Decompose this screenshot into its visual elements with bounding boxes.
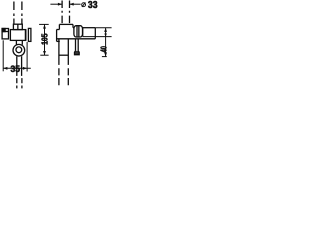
- arrow dim40 down: [104, 52, 107, 56]
- wall flange: [2, 29, 8, 39]
- ext top right: [95, 27, 111, 29]
- svg-text:40: 40: [99, 46, 108, 53]
- svg-text:105: 105: [40, 33, 50, 45]
- pipe dash left: [58, 68, 60, 85]
- body rect side view: [10, 30, 25, 41]
- pipe face hline: [59, 54, 68, 56]
- pipe wall left: [58, 39, 60, 65]
- stud wall left: [75, 39, 77, 51]
- phi symbol: [82, 3, 86, 7]
- dim40 vline: [105, 28, 107, 57]
- arrow dim33 right-point: [58, 3, 62, 6]
- arrow dim40 up: [104, 28, 107, 32]
- body2 right edge: [94, 28, 96, 39]
- centerline left-A: [13, 2, 15, 25]
- dim105 top tick: [39, 23, 49, 25]
- top edge seg2: [83, 27, 96, 29]
- dim105 bottom tick: [40, 54, 48, 56]
- dim35 ext right: [26, 42, 28, 72]
- body right thick edge: [25, 30, 27, 41]
- svg-text:33: 33: [88, 0, 98, 11]
- arrow dim33 left-point: [70, 3, 74, 6]
- tube wall left: [16, 56, 18, 76]
- end disc: [28, 28, 31, 41]
- step down right: [72, 24, 74, 27]
- pipe dash right: [67, 68, 69, 85]
- svg-text:35: 35: [11, 64, 20, 74]
- flange dark cell: [2, 29, 5, 32]
- tube hidden dash right: [21, 78, 23, 88]
- flange divider hline: [2, 31, 8, 33]
- tube hidden dash left: [16, 78, 18, 88]
- flange2 bottom: [57, 40, 60, 42]
- plateau left edge: [58, 24, 60, 29]
- centerline left-B: [21, 2, 23, 25]
- tube wall right: [21, 56, 23, 76]
- step hline: [57, 29, 60, 31]
- dim40 bottom tick: [102, 56, 107, 58]
- arrow dim40 mid-down: [104, 34, 107, 37]
- body2 bottom edge: [56, 38, 95, 40]
- dim33 line left: [50, 3, 62, 5]
- barrel right vline: [82, 28, 84, 37]
- internal hline + ext: [83, 36, 112, 38]
- pipe wall right: [67, 39, 69, 65]
- stem mid line: [17, 24, 19, 29]
- dim33 line right: [70, 3, 81, 5]
- outlet inner circle: [16, 47, 22, 53]
- leg left: [15, 40, 17, 44]
- arrow dim35 right: [23, 67, 27, 70]
- centerline right-A: [61, 1, 63, 25]
- dim105 line: [44, 24, 46, 55]
- leg right: [21, 40, 23, 44]
- arrow dim35 left: [3, 67, 7, 70]
- plateau top edge: [59, 23, 73, 25]
- stud wall right: [77, 39, 79, 51]
- top edge seg1: [73, 27, 74, 29]
- bonnet barrel: [74, 26, 83, 37]
- arrow dim105 down: [43, 51, 46, 55]
- arrow dim105 up: [43, 24, 46, 28]
- dim35 line: [3, 67, 31, 69]
- stem box: [13, 24, 22, 29]
- flange2 left edge: [56, 30, 58, 42]
- outlet outer circle: [13, 44, 25, 56]
- barrel inner line A: [76, 26, 78, 37]
- centerline right-B: [69, 1, 71, 25]
- dim35 ext left: [2, 40, 4, 71]
- barrel inner line B: [78, 26, 80, 37]
- stud flare: [75, 51, 80, 55]
